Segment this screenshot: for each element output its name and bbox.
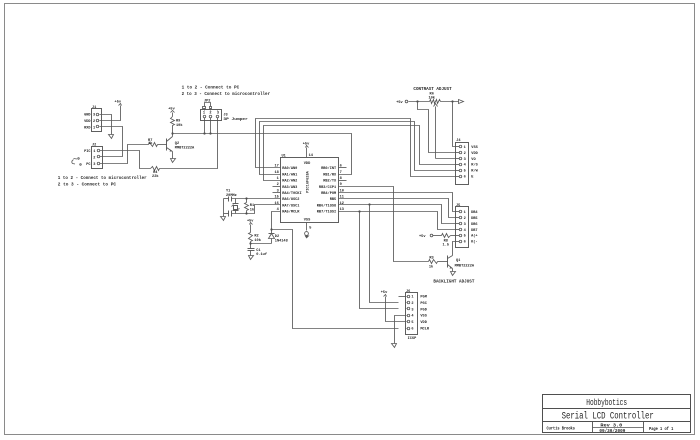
pin stubs J6 [406, 297, 407, 329]
transistor Q2 MMBT2222A [167, 137, 196, 152]
svg-text:A(+: A(+ [471, 234, 477, 239]
wire RB6 to J6 PGC [370, 205, 399, 303]
svg-text:3: 3 [411, 308, 413, 312]
wire D2 to R2/C1 node [251, 243, 272, 245]
connector J2 [84, 144, 102, 169]
supply +5v (J1) [115, 101, 122, 106]
node: collector junction [171, 132, 173, 134]
svg-text:2: 2 [464, 217, 466, 221]
svg-text:VSS: VSS [420, 315, 427, 319]
node: RB6/PGC branch [368, 203, 370, 205]
svg-text:PIC: PIC [84, 150, 91, 154]
svg-text:Q2: Q2 [175, 142, 179, 146]
supply +5v (J6) [381, 291, 388, 296]
ground (J1) [109, 135, 114, 139]
svg-text:MCLR: MCLR [420, 328, 429, 332]
wire R4 to J3 pin3 [160, 118, 218, 169]
svg-text:1 to 2 - Connect to PC: 1 to 2 - Connect to PC [182, 86, 240, 91]
svg-text:J2: J2 [92, 144, 96, 148]
svg-text:Serial LCD Controller: Serial LCD Controller [562, 411, 654, 423]
wire OSC1 net [232, 205, 281, 214]
svg-text:2: 2 [411, 302, 413, 306]
resistor R1 [245, 199, 255, 214]
svg-text:+5v: +5v [381, 291, 388, 295]
svg-text:RA0/AN0: RA0/AN0 [282, 166, 297, 171]
wire RB5 to DB5 [339, 199, 456, 218]
resonator Y1 20MHz [224, 190, 240, 217]
svg-text:6: 6 [464, 176, 466, 180]
node: RB7/PGD branch [358, 210, 360, 212]
wire to J4 VDD [418, 102, 456, 153]
node: MCLR branch [270, 228, 272, 230]
svg-text:MMBT2222A: MMBT2222A [455, 264, 475, 268]
supply +5v (contrast) [396, 100, 408, 105]
svg-text:10k: 10k [254, 238, 261, 243]
node: contrast gnd branch [451, 100, 453, 102]
svg-text:DB7: DB7 [471, 229, 477, 233]
node: R1 top [245, 197, 247, 199]
svg-text:CONTRAST ADJUST: CONTRAST ADJUST [413, 87, 452, 92]
svg-text:VDD: VDD [84, 120, 91, 124]
pin ticks J3 [205, 109, 218, 111]
svg-text:DB4: DB4 [471, 211, 478, 215]
svg-text:RA3/AN3: RA3/AN3 [282, 185, 297, 190]
potentiometer R6 10k [428, 92, 440, 158]
wire R8 to J5 A(+) [451, 235, 456, 237]
wire collector rail to RB1 [173, 134, 352, 175]
svg-text:VSS: VSS [304, 219, 311, 223]
note: J2 jumper usage [58, 176, 147, 188]
pin stub RB2 [339, 180, 347, 182]
connector J6 (ICSP) [406, 290, 430, 341]
wire RB4 to DB4 [339, 193, 456, 212]
supply +5v (R2) [247, 219, 254, 224]
wire R6 wiper to J4 VO [436, 158, 456, 160]
svg-text:2: 2 [93, 157, 95, 161]
svg-text:RB2/TX: RB2/TX [323, 179, 337, 184]
svg-text:ICSP: ICSP [408, 337, 417, 341]
svg-text:R9: R9 [176, 120, 180, 124]
wire J3 pin1 down [204, 118, 206, 134]
wire J1 GND to ground [100, 115, 112, 135]
svg-text:D2: D2 [275, 235, 279, 239]
wire Q2 collector [172, 134, 174, 137]
svg-text:VDD: VDD [420, 321, 427, 325]
pin stubs J5 [456, 212, 460, 242]
svg-text:3: 3 [464, 158, 466, 162]
svg-text:RXD: RXD [84, 127, 91, 131]
wire RB7 to J6 PGD [360, 212, 399, 309]
svg-text:7: 7 [340, 171, 342, 175]
svg-text:1N4148: 1N4148 [275, 240, 288, 244]
wire R7 to Q2 base [158, 144, 167, 146]
svg-text:DB6: DB6 [471, 223, 477, 227]
svg-text:16: 16 [274, 202, 278, 206]
capacitor C1 [248, 249, 267, 258]
svg-text:VSS: VSS [471, 146, 478, 150]
ground (J6) [392, 344, 397, 348]
ground (C1) [249, 256, 254, 260]
svg-text:3: 3 [93, 114, 95, 118]
svg-text:+5v: +5v [396, 101, 403, 105]
svg-text:10k: 10k [176, 123, 183, 128]
svg-text:GND: GND [84, 114, 91, 118]
pin stubs J4 [456, 147, 460, 177]
svg-text:R3: R3 [429, 256, 433, 260]
svg-text:RB7/T1OSI: RB7/T1OSI [317, 210, 336, 215]
svg-text:1: 1 [411, 296, 413, 300]
svg-text:1: 1 [93, 150, 95, 154]
svg-text:RA5/MCLR: RA5/MCLR [282, 210, 300, 215]
supply +5v (R9) [168, 108, 175, 113]
svg-text:1.5: 1.5 [443, 243, 449, 247]
svg-text:RB3/CCP1: RB3/CCP1 [319, 185, 336, 190]
svg-text:22k: 22k [152, 174, 159, 179]
svg-text:K(-: K(- [471, 240, 477, 245]
wire MCLR to J6 pin6 [272, 230, 399, 329]
svg-text:+5v: +5v [419, 235, 426, 239]
svg-text:Rev 3.0: Rev 3.0 [600, 423, 622, 428]
svg-text:0.1uf: 0.1uf [256, 252, 267, 257]
resistor R8 [442, 234, 451, 248]
svg-text:1: 1 [464, 211, 466, 215]
svg-text:1: 1 [93, 127, 95, 131]
svg-text:5: 5 [464, 235, 466, 239]
pin stub RA4 [273, 192, 281, 194]
svg-text:2 to 3 - Connect to microcontr: 2 to 3 - Connect to microcontroller [182, 92, 271, 97]
svg-text:Page 1 of 1: Page 1 of 1 [649, 426, 673, 432]
note: J3 jumper usage [182, 86, 271, 98]
svg-text:MMBT2222A: MMBT2222A [175, 147, 195, 151]
svg-text:11: 11 [340, 196, 344, 200]
wire OSC2 net [232, 198, 281, 200]
svg-text:+5v: +5v [303, 142, 310, 146]
svg-text:2 to 3 - Connect to PC: 2 to 3 - Connect to PC [58, 182, 117, 187]
svg-text:R2: R2 [254, 235, 258, 239]
svg-text:10k: 10k [428, 95, 435, 100]
svg-text:DB5: DB5 [471, 217, 477, 221]
wire RA0 to LCD E (J4 pin6) [256, 119, 456, 177]
node: R2/C1/D2 junction [249, 242, 251, 244]
key mark symbol left of J2 [72, 158, 81, 166]
svg-text:2: 2 [93, 120, 95, 124]
svg-text:RA6/OSC2: RA6/OSC2 [282, 197, 299, 202]
pin stub RA3 [273, 186, 281, 188]
IC U1 PIC16F628A [274, 154, 343, 230]
connector J4 (LCD control) [456, 139, 479, 184]
svg-text:5: 5 [464, 170, 466, 174]
wire RA2 to LCD R/S (J4 pin4) [264, 126, 456, 181]
wire Q1 emitter to ground [452, 269, 454, 272]
svg-text:RB1/RX: RB1/RX [323, 172, 337, 177]
svg-text:+5v: +5v [168, 108, 175, 112]
ground (U1 VSS) [305, 232, 310, 239]
svg-text:Curtis Brooks: Curtis Brooks [547, 426, 576, 432]
svg-text:R/S: R/S [471, 163, 478, 168]
wire J1 RXD to J2 pin2 [100, 127, 123, 157]
node: contrast +5v branch [416, 100, 418, 102]
wire RB6 to DB6 [339, 205, 456, 224]
wire RB3 to R3 [339, 187, 429, 262]
svg-text:5: 5 [411, 321, 413, 325]
svg-text:PGD: PGD [420, 308, 427, 312]
pin stub J6 PGM [399, 296, 406, 298]
svg-text:VDD: VDD [471, 152, 478, 156]
node: J3 pin1 junction [203, 132, 205, 134]
wire U1 VSS to ground [306, 223, 308, 231]
resistor R4 [151, 167, 160, 180]
svg-text:PIC16F628A: PIC16F628A [307, 170, 311, 192]
svg-text:3P Jumper: 3P Jumper [223, 117, 248, 122]
wire J6 VDD to +5v [386, 297, 406, 322]
svg-text:3: 3 [93, 163, 95, 167]
svg-text:VDD: VDD [304, 162, 311, 166]
svg-text:PGC: PGC [420, 302, 427, 306]
svg-text:J6: J6 [406, 290, 410, 294]
svg-text:6: 6 [340, 165, 342, 169]
node: J3 pin2 junction [209, 132, 211, 134]
svg-text:5: 5 [309, 227, 311, 231]
connector J1 [84, 106, 101, 132]
svg-text:Hobbybotics: Hobbybotics [586, 397, 627, 408]
jumper cap JP2 bracket [204, 100, 211, 107]
wire J1 VDD to +5v [100, 106, 121, 121]
svg-text:RB4/PGM: RB4/PGM [321, 191, 336, 196]
svg-text:BACKLIGHT ADJUST: BACKLIGHT ADJUST [433, 279, 474, 284]
wire Q2 emitter to ground [172, 152, 174, 159]
connector J5 (LCD data) [456, 204, 479, 248]
svg-text:+5v: +5v [115, 101, 122, 105]
svg-text:PGM: PGM [420, 296, 426, 300]
resistor R2 [249, 225, 262, 249]
svg-text:RA1/AN1: RA1/AN1 [282, 172, 297, 177]
pin stub RB0 [339, 167, 347, 169]
transistor Q1 MMBT2222A [448, 256, 475, 269]
svg-text:RB5: RB5 [330, 198, 336, 202]
svg-text:+5v: +5v [247, 219, 254, 223]
supply +5v (U1) [303, 142, 310, 147]
jumper J3 [201, 110, 248, 122]
svg-text:1: 1 [464, 146, 466, 150]
svg-text:6: 6 [411, 328, 413, 332]
wire +5v to R8 [433, 235, 442, 237]
wire J2 pin1 to R4 [100, 151, 151, 169]
wire to J4 VSS [453, 102, 456, 147]
ground (Q2) [171, 159, 176, 163]
wire J2 pin3 to R7 [100, 145, 149, 164]
node: R1 bottom [245, 212, 247, 214]
svg-text:6: 6 [464, 241, 466, 245]
svg-text:RA2/AN2: RA2/AN2 [282, 179, 297, 184]
svg-text:1 to 2 - Connect to microcontr: 1 to 2 - Connect to microcontroller [58, 176, 147, 181]
svg-text:RB0/INT: RB0/INT [321, 166, 337, 171]
svg-text:17: 17 [274, 165, 278, 169]
svg-text:R/W: R/W [471, 169, 478, 174]
svg-text:J5: J5 [456, 204, 460, 208]
svg-text:12: 12 [340, 202, 344, 206]
wire J3 pin2 down [210, 118, 212, 134]
svg-text:C1: C1 [256, 249, 260, 253]
wire U1 VDD to +5v [306, 148, 308, 158]
wire J6 VSS to ground [395, 316, 406, 344]
svg-text:J1: J1 [92, 106, 96, 110]
wire RB7 to DB7 [339, 212, 456, 230]
resistor R3 [429, 256, 438, 269]
svg-text:RA7/OSC1: RA7/OSC1 [282, 203, 299, 208]
ground arrow (contrast) [459, 100, 464, 104]
svg-text:RB6/T1OSO: RB6/T1OSO [317, 203, 337, 208]
wire J5 K(-) to Q1 collector [453, 242, 456, 256]
svg-text:2: 2 [464, 152, 466, 156]
svg-text:3: 3 [464, 223, 466, 227]
wire +5v to R6 [409, 101, 430, 103]
svg-text:JP2: JP2 [204, 100, 210, 104]
resistor R9 [171, 113, 184, 134]
wire RA1 to LCD R/W (J4 pin5) [260, 122, 456, 175]
svg-text:09/30/2009: 09/30/2009 [599, 429, 625, 434]
resistor R7 [148, 139, 157, 147]
wire R3 to Q1 base [438, 261, 448, 263]
svg-text:R1: R1 [250, 204, 254, 208]
svg-text:U1: U1 [282, 155, 286, 159]
ground (Q1) [451, 272, 456, 276]
supply +5v (backlight) [419, 234, 433, 239]
wire MCLR pin to D2 [272, 212, 281, 234]
title block [543, 395, 691, 434]
svg-text:15: 15 [274, 196, 278, 200]
svg-text:RA4/T0CKI: RA4/T0CKI [282, 191, 301, 196]
svg-text:Q1: Q1 [456, 259, 460, 263]
ground (Y1) [221, 217, 226, 221]
jumper cap JP2 pads [203, 107, 206, 109]
diode D2 1N4148 [269, 234, 288, 244]
wire R6 to ground arrow [441, 101, 459, 103]
